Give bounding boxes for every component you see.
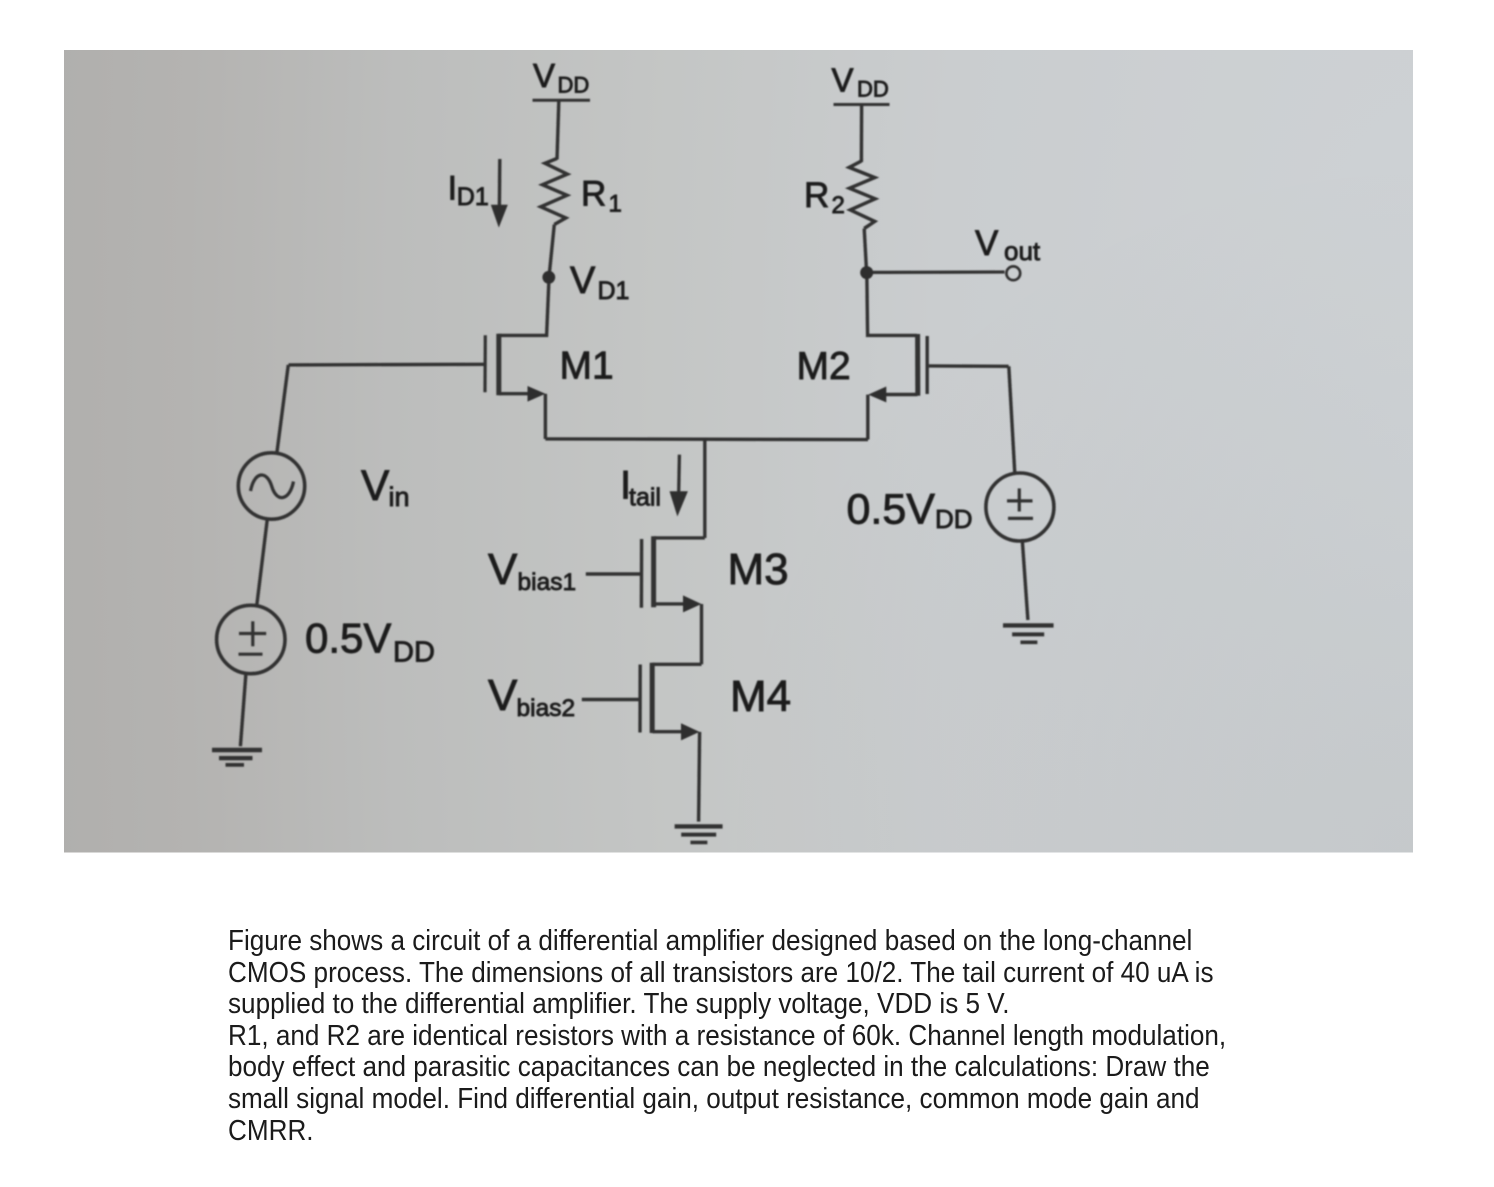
- svg-text:tail: tail: [629, 484, 661, 512]
- wire M1 source to tail rail: [544, 394, 547, 439]
- wire M3 source to M4 drain: [700, 604, 703, 664]
- label Vin: [361, 463, 410, 512]
- ground (tail): [675, 826, 723, 842]
- wire VDD rail to R1: [557, 102, 559, 160]
- label Itail: [620, 464, 661, 512]
- photo background: [64, 50, 1413, 853]
- svg-text:I: I: [448, 170, 457, 208]
- label VD1: [570, 260, 629, 305]
- svg-text:V: V: [570, 260, 596, 302]
- current arrow Itail: [670, 455, 688, 517]
- transistor M2: [868, 334, 927, 402]
- svg-text:out: out: [1004, 236, 1041, 266]
- wire node to M2 drain: [867, 279, 917, 335]
- DC source 0.5VDD (left battery): [217, 605, 285, 673]
- svg-text:in: in: [389, 482, 410, 512]
- AC source Vin: [238, 453, 304, 519]
- transistor M3: [641, 536, 704, 612]
- current arrow ID1: [491, 159, 508, 228]
- wire VDD rail to R2: [860, 106, 864, 162]
- svg-text:D1: D1: [598, 277, 630, 305]
- VDD supply rail (right): [834, 103, 890, 106]
- svg-text:bias2: bias2: [517, 695, 576, 722]
- svg-text:DD: DD: [935, 504, 973, 534]
- svg-text:V: V: [975, 224, 999, 263]
- ground (left): [212, 750, 262, 765]
- label R2: [804, 176, 845, 219]
- svg-text:D1: D1: [457, 183, 489, 211]
- label M1: [560, 345, 614, 388]
- wire M2 source to tail rail: [866, 395, 869, 440]
- svg-text:R: R: [581, 175, 606, 214]
- wire M1 gate lead: [289, 363, 485, 367]
- svg-text:M3: M3: [728, 545, 789, 594]
- tail rail wire (common sources): [545, 437, 868, 441]
- svg-text:2: 2: [832, 192, 845, 219]
- wire node VD1 to M1 drain: [499, 283, 549, 335]
- label 0.5VDD (left): [305, 615, 435, 669]
- svg-text:bias1: bias1: [518, 569, 577, 596]
- svg-text:M2: M2: [797, 345, 851, 388]
- svg-text:V: V: [488, 545, 518, 594]
- net VDD label (left): [533, 57, 589, 98]
- svg-text:0.5V: 0.5V: [305, 615, 391, 662]
- label M4: [730, 672, 791, 721]
- wire battery to ground: [240, 675, 245, 746]
- wire tail node to M3 drain: [703, 439, 706, 538]
- wire Vbias1 to M3 gate: [586, 572, 640, 575]
- wire Vin to battery: [257, 519, 267, 604]
- svg-text:V: V: [533, 57, 555, 94]
- svg-text:DD: DD: [558, 73, 590, 98]
- wire M4 source to ground: [699, 732, 700, 822]
- label Vbias1: [488, 545, 576, 596]
- VDD supply rail (left): [533, 99, 591, 102]
- node VD1 (junction dot): [542, 271, 555, 284]
- svg-text:V: V: [361, 463, 390, 510]
- transistor M4: [640, 663, 702, 741]
- label Vbias2: [488, 671, 575, 722]
- svg-text:1: 1: [609, 191, 622, 218]
- DC source 0.5VDD (right): [986, 473, 1054, 541]
- label M2: [797, 345, 851, 388]
- node R2/M2 drain junction dot: [860, 266, 873, 279]
- wire gate riser to Vin: [277, 365, 288, 452]
- svg-text:R: R: [804, 176, 829, 215]
- wire gate riser to right source: [1009, 366, 1015, 473]
- wire M2 gate lead: [929, 364, 1009, 368]
- wire R1 to node VD1: [549, 225, 554, 278]
- ground (right): [1003, 625, 1054, 642]
- svg-text:0.5V: 0.5V: [847, 486, 936, 534]
- svg-text:DD: DD: [857, 77, 889, 102]
- wire Vbias2 to M4 gate: [582, 698, 639, 701]
- svg-text:M4: M4: [730, 672, 791, 721]
- wire right source to ground: [1022, 539, 1028, 620]
- label 0.5VDD (right): [847, 486, 973, 535]
- svg-text:DD: DD: [393, 637, 435, 669]
- net VDD label (right): [832, 62, 889, 102]
- label R1: [581, 175, 622, 218]
- label ID1: [448, 170, 489, 212]
- transistor M1: [485, 334, 545, 402]
- resistor R1: [541, 159, 568, 225]
- wire node to Vout terminal: [873, 270, 1005, 274]
- svg-text:V: V: [832, 62, 854, 99]
- Vout terminal (open circle): [1006, 266, 1020, 280]
- label Vout: [975, 224, 1041, 266]
- svg-text:M1: M1: [560, 345, 614, 388]
- wire R2 to node Vout: [864, 229, 866, 273]
- resistor R2: [849, 161, 875, 229]
- svg-text:V: V: [488, 671, 518, 720]
- label M3: [728, 545, 789, 594]
